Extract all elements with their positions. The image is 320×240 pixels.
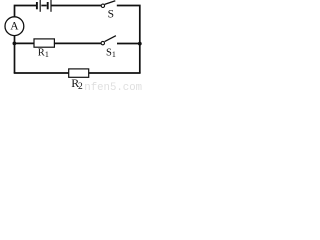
resistor R1: [34, 39, 54, 47]
wire stub between battery cells: [41, 5, 46, 7]
wire from battery to switch S: [51, 5, 101, 7]
wire left (ammeter bottom down to bottom-left corner): [14, 35, 16, 73]
svg-text:S: S: [108, 9, 114, 21]
wire bottom-left (corner to R2): [14, 72, 69, 74]
battery cell 1 short plate (negative): [36, 2, 38, 9]
switch S1 blade: [105, 36, 116, 42]
wire top-right (switch S to right edge corner): [117, 6, 140, 44]
switch S blade: [105, 1, 116, 5]
wire from S1 to right edge: [117, 43, 140, 45]
junction node left: [13, 42, 17, 46]
ammeter A: [5, 17, 24, 36]
svg-text:S1: S1: [106, 47, 116, 58]
battery cell 2 long plate (positive): [50, 0, 52, 12]
battery cell 1 long plate (positive): [39, 0, 41, 12]
wire top-left (from ammeter top up and right to battery): [15, 6, 37, 18]
wire from R1 to switch S1: [54, 42, 101, 44]
resistor R2: [69, 69, 89, 77]
wire from left junction to R1: [15, 42, 35, 44]
svg-text:2: 2: [78, 82, 83, 92]
svg-text:A: A: [10, 21, 19, 33]
switch S1 pivot circle: [101, 41, 104, 44]
svg-text:R1: R1: [38, 48, 49, 60]
wire right edge (junction down to bottom-right corner): [139, 44, 141, 74]
wire bottom-right (R2 to corner): [89, 72, 141, 74]
switch S pivot circle: [101, 4, 104, 7]
junction node right: [138, 42, 142, 46]
svg-text:nfen5.com: nfen5.com: [84, 82, 142, 93]
battery cell 2 short plate (negative): [47, 2, 49, 9]
